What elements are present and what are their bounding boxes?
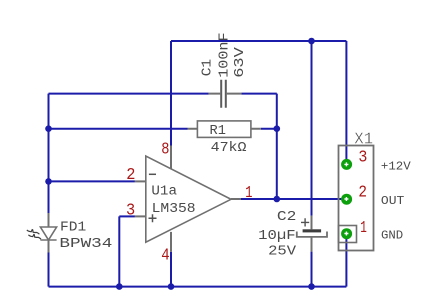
X1 pin 3 pad	[341, 159, 352, 170]
svg-text:47kΩ: 47kΩ	[211, 141, 247, 156]
photodiode light arrow 1	[27, 230, 40, 235]
op-amp U1 pin1 lead	[231, 198, 241, 200]
svg-text:2: 2	[126, 166, 135, 185]
wire output row	[241, 198, 346, 200]
junction gnd C2	[308, 283, 315, 290]
wire ground bottom rail	[49, 286, 347, 288]
wire R1 row left	[49, 128, 188, 130]
svg-text:+12V: +12V	[381, 159, 412, 173]
wire left column lower	[48, 253, 50, 287]
wire op-amp pin2 row	[49, 180, 135, 182]
svg-text:10µF: 10µF	[258, 229, 295, 244]
wire R1 row right	[261, 128, 277, 130]
svg-text:2: 2	[358, 183, 367, 202]
wire top +12V rail	[171, 40, 346, 42]
svg-text:4: 4	[161, 246, 169, 265]
op-amp U1 pin8 lead	[170, 146, 172, 169]
op-amp U1 pin2 lead	[135, 180, 146, 182]
svg-text:LM358: LM358	[152, 202, 196, 217]
wire C1 feedback row left	[49, 93, 209, 95]
svg-text:FD1: FD1	[60, 221, 86, 236]
photodiode light arrow 2	[28, 235, 41, 240]
junction top rail / C2	[308, 38, 315, 45]
wire left column upper	[48, 94, 50, 213]
svg-text:GND: GND	[381, 229, 403, 243]
junction R1 left	[45, 125, 52, 132]
svg-text:C1: C1	[201, 59, 216, 76]
wire op-amp pin3 row	[119, 215, 135, 217]
resistor R1 leads	[188, 128, 261, 130]
svg-text:100nF: 100nF	[217, 32, 232, 77]
photodiode FD1 triangle	[40, 227, 56, 240]
junction output feedback	[274, 196, 281, 203]
svg-text:3: 3	[126, 201, 135, 220]
svg-text:X1: X1	[354, 131, 373, 150]
op-amp U1a triangle	[146, 156, 231, 242]
connector X1 pin1 box	[339, 226, 357, 243]
svg-text:U1a: U1a	[151, 185, 177, 200]
wire C1 feedback row right	[241, 93, 276, 95]
svg-text:8: 8	[161, 141, 169, 160]
X1 pin 2 pad	[341, 194, 352, 205]
wire feedback vertical	[276, 94, 278, 199]
svg-text:OUT: OUT	[381, 194, 404, 208]
capacitor C2 bottom plate bracket	[297, 232, 327, 237]
op-amp U1 pin3 lead	[135, 215, 146, 217]
resistor R1 body	[197, 121, 251, 137]
wire pin8 supply drop	[170, 41, 172, 146]
capacitor C2 top lead	[311, 216, 313, 230]
wire top-right drop to X1 pin3	[345, 41, 347, 164]
svg-text:BPW34: BPW34	[59, 237, 112, 252]
photodiode FD1 bottom lead	[48, 240, 50, 253]
wire X1 pin1 gnd riser	[345, 234, 347, 287]
svg-text:1: 1	[245, 184, 252, 203]
svg-text:R1: R1	[210, 124, 226, 139]
junction pin2 left	[45, 178, 52, 185]
capacitor C2 top plate	[303, 229, 322, 232]
wire C2 bottom	[311, 252, 313, 287]
op-amp minus mark	[149, 173, 156, 175]
junction gnd pin3	[116, 283, 123, 290]
X1 pin 1 pad	[341, 228, 352, 239]
wire C2 branch vertical	[311, 41, 313, 216]
op-amp U1 pin4 lead	[170, 232, 172, 252]
svg-text:C2: C2	[277, 210, 297, 225]
photodiode FD1 cathode bar	[40, 239, 56, 241]
capacitor C1 plates	[221, 80, 226, 108]
capacitor C2 plus mark	[301, 218, 309, 226]
wire overlay over C1 value text	[212, 40, 232, 42]
op-amp plus mark	[149, 214, 157, 222]
junction R1 right	[274, 125, 281, 132]
wire pin4 drop	[170, 252, 172, 287]
svg-text:3: 3	[358, 149, 367, 168]
svg-text:25V: 25V	[268, 245, 297, 260]
connector X1 body	[339, 146, 374, 251]
photodiode FD1 top lead	[48, 213, 50, 227]
svg-text:63V: 63V	[233, 46, 248, 78]
svg-text:1: 1	[360, 219, 367, 238]
capacitor C2 bottom lead	[311, 237, 313, 252]
wire pin3 drop	[118, 216, 120, 286]
junction gnd pin4	[168, 283, 175, 290]
capacitor C1 leads	[209, 93, 242, 95]
